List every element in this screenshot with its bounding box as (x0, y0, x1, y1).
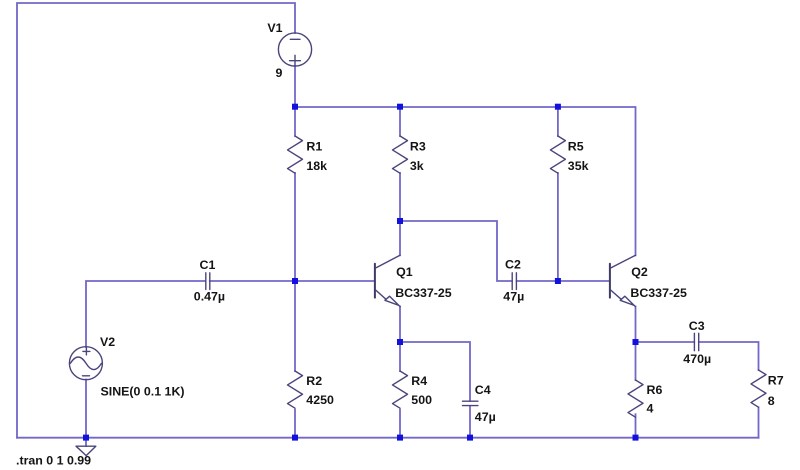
svg-text:47µ: 47µ (503, 289, 524, 303)
svg-text:R4: R4 (411, 374, 427, 388)
svg-text:BC337-25: BC337-25 (395, 286, 452, 300)
svg-text:SINE(0 0.1 1K): SINE(0 0.1 1K) (101, 385, 185, 399)
svg-text:47µ: 47µ (475, 410, 496, 424)
svg-text:0.47µ: 0.47µ (194, 290, 225, 304)
svg-text:35k: 35k (568, 159, 589, 173)
svg-text:4250: 4250 (306, 393, 334, 407)
svg-text:C2: C2 (505, 258, 521, 272)
svg-text:.tran 0 1 0.99: .tran 0 1 0.99 (16, 454, 91, 468)
svg-text:9: 9 (276, 66, 283, 80)
svg-text:470µ: 470µ (683, 352, 711, 366)
svg-text:R2: R2 (306, 374, 322, 388)
svg-text:C1: C1 (200, 258, 216, 272)
svg-text:3k: 3k (410, 159, 424, 173)
svg-text:18k: 18k (306, 159, 327, 173)
svg-text:Q2: Q2 (631, 265, 648, 279)
svg-text:4: 4 (647, 402, 654, 416)
svg-text:R7: R7 (768, 373, 784, 387)
svg-text:V1: V1 (267, 21, 282, 35)
svg-text:C4: C4 (475, 383, 491, 397)
svg-text:8: 8 (768, 394, 775, 408)
svg-text:C3: C3 (689, 319, 705, 333)
svg-text:R3: R3 (410, 139, 426, 153)
svg-text:500: 500 (411, 393, 432, 407)
svg-text:R5: R5 (568, 139, 584, 153)
svg-text:R1: R1 (306, 139, 322, 153)
svg-text:R6: R6 (647, 383, 663, 397)
svg-text:BC337-25: BC337-25 (630, 286, 687, 300)
svg-text:Q1: Q1 (396, 265, 413, 279)
svg-text:V2: V2 (100, 335, 115, 349)
